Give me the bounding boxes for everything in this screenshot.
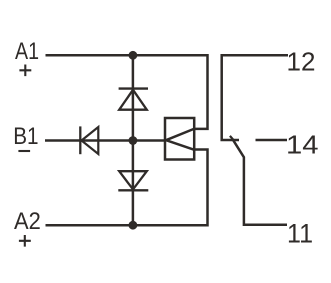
junction node at B1 — [129, 136, 138, 145]
diode D3 triangle — [82, 127, 99, 154]
wire vertical bus — [132, 55, 135, 225]
wire terminal 12 to contact — [222, 55, 288, 140]
wire A1 to coil upper terminal — [46, 55, 208, 129]
relay contact tick — [230, 136, 235, 141]
diode D1 triangle — [119, 90, 147, 110]
svg-text:12: 12 — [287, 46, 316, 76]
diode D2 cathode bar — [118, 189, 148, 191]
diode D2 triangle — [119, 171, 147, 189]
minus sign under B1 — [18, 150, 30, 152]
relay contact blade and wire to terminal 11 — [233, 140, 287, 225]
svg-text:B1: B1 — [13, 123, 38, 150]
diode D3 cathode bar — [79, 126, 81, 154]
wire coil lower terminal to A2 — [46, 150, 208, 226]
relay coil triangle — [166, 129, 194, 150]
svg-text:14: 14 — [286, 130, 319, 160]
diode D1 cathode bar — [119, 87, 148, 89]
svg-text:11: 11 — [287, 218, 313, 248]
svg-text:A2: A2 — [14, 208, 41, 235]
junction node at A2 — [129, 221, 138, 230]
plus sign under A2 — [19, 235, 31, 247]
relay coil box K1 — [165, 118, 194, 160]
plus sign under A1 — [19, 65, 31, 77]
junction node at A1 — [129, 51, 138, 60]
svg-text:A1: A1 — [15, 38, 39, 65]
wire B1 — [45, 139, 165, 142]
wire terminal 14 — [256, 139, 288, 142]
